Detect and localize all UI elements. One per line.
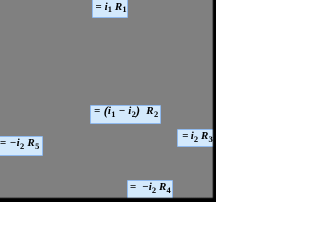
text = -i2R5 [0,137,39,150]
box for label v3 (resistor R3 voltage) [177,129,216,147]
right black edge [212,0,216,202]
text = i2R3 [182,130,213,143]
text = (i1 - i2) R2 [94,105,158,118]
box for label v4 (resistor R4 voltage) [127,180,173,199]
box for label v1 (resistor R1 voltage) [92,0,128,18]
text = -i2R4 [130,181,171,194]
box for label v2 (resistor R2 voltage) [90,105,161,124]
text = i1R1 [95,1,126,14]
bottom black edge [0,197,216,202]
box for label v5 (resistor R5 voltage) [0,136,43,156]
